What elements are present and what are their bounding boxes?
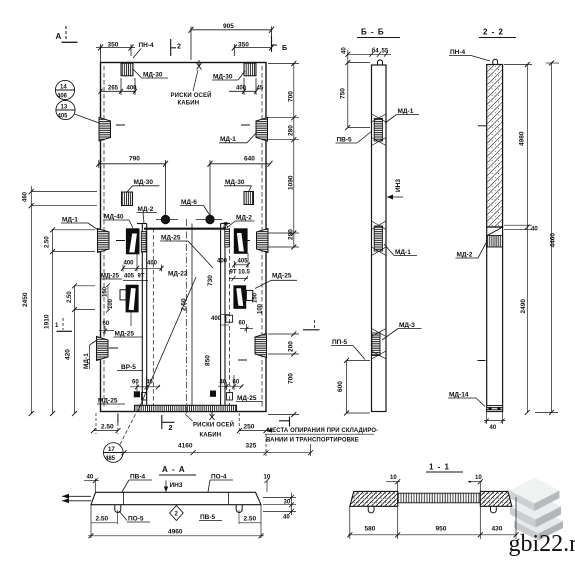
anchor МД-25 upper-right black box: [234, 228, 248, 254]
svg-text:100: 100: [258, 303, 264, 314]
svg-text:60: 60: [239, 321, 246, 327]
label ВР-5: [117, 364, 143, 371]
label МД-25 bottom-left: [97, 398, 125, 405]
svg-text:РИСКИ ОСЕЙ: РИСКИ ОСЕЙ: [193, 421, 234, 429]
text риски осей кабин bottom: [185, 414, 234, 439]
svg-text:2.50: 2.50: [181, 298, 188, 311]
svg-text:405: 405: [124, 274, 135, 280]
svg-text:2: 2: [177, 44, 181, 51]
loop under 1-1 left block: [368, 506, 374, 513]
section 2-2 title: [479, 28, 516, 38]
thickness dims А-А right end: [263, 493, 296, 521]
anchor black square bottom-left: [134, 391, 147, 400]
embed МД-6 circle right: [196, 215, 222, 223]
dimension 200 right: [268, 332, 299, 357]
svg-text:9Т 10.5: 9Т 10.5: [230, 270, 251, 276]
svg-text:400: 400: [124, 261, 135, 267]
svg-text:МД-2: МД-2: [457, 252, 473, 259]
embed МД-2 strip left jamb: [141, 232, 146, 253]
svg-text:Б - Б: Б - Б: [361, 28, 385, 37]
dimension 40 60 bottom-right pier: [218, 375, 244, 390]
svg-text:50: 50: [224, 221, 230, 228]
dimension 2490 2-2 inner lower: [520, 299, 527, 314]
axis dash left middle: [116, 240, 125, 242]
svg-text:40: 40: [531, 227, 538, 233]
embed МД-1 left edge lower: [97, 337, 109, 361]
embed МД-1 right edge lower: [255, 334, 267, 358]
section Б-Б column: [372, 65, 387, 412]
svg-text:МД-2: МД-2: [236, 215, 252, 222]
embed МД-2 block in 2-2: [487, 236, 503, 248]
section 1-1 right block: [480, 491, 512, 506]
section 1-1 title: [426, 463, 463, 473]
marker circle 13/405: [56, 100, 99, 123]
dimension 265 400 top-left inner: [99, 78, 138, 95]
dimension 600 Б-Б: [337, 358, 370, 416]
svg-text:МД-30: МД-30: [225, 179, 245, 186]
svg-text:МД-25: МД-25: [161, 235, 181, 242]
svg-text:А: А: [56, 32, 62, 41]
label МД-25 mid-left: [100, 274, 122, 280]
dimension 750 Б-Б: [340, 88, 371, 130]
svg-text:2: 2: [175, 512, 179, 518]
svg-text:МД-3: МД-3: [399, 322, 415, 329]
diamond mark А-А: [170, 506, 184, 521]
svg-text:150: 150: [253, 292, 259, 303]
dimension 64 55 Б-Б top: [368, 48, 391, 57]
svg-text:700: 700: [288, 373, 295, 384]
svg-text:280: 280: [288, 125, 295, 136]
axis dash right middle: [241, 240, 250, 242]
dimension 405 97 left: [123, 274, 148, 281]
embed МД-30 square mid-left: [122, 192, 133, 206]
section 2-2 column with concrete hatch: [487, 65, 503, 412]
svg-text:750: 750: [340, 88, 347, 99]
svg-text:МД-14: МД-14: [449, 392, 469, 399]
section Б-Б title: [357, 28, 400, 38]
svg-text:250: 250: [244, 424, 255, 431]
embed МД-1 left edge middle: [98, 229, 110, 253]
svg-text:2.50: 2.50: [96, 516, 109, 523]
dimension 280 right lower: [268, 229, 299, 250]
dimension 2.50 А-А right: [239, 505, 261, 538]
dimension 420 left: [65, 349, 78, 416]
svg-text:280: 280: [288, 229, 295, 240]
embed МД-30 tab top-left: [121, 63, 133, 76]
svg-text:2.50: 2.50: [67, 291, 73, 303]
text места опирания: [265, 428, 378, 444]
stub below МД-6 circle right: [209, 220, 211, 224]
section mark 2 bottom: [162, 415, 175, 432]
dimension 700 right bottom: [268, 373, 299, 417]
section mark 1 right: [303, 320, 320, 330]
svg-text:430: 430: [492, 526, 503, 533]
anchor black square bottom-right: [210, 391, 233, 401]
svg-text:45: 45: [257, 86, 264, 92]
svg-text:10: 10: [475, 475, 482, 481]
svg-text:9Т: 9Т: [138, 274, 145, 280]
embed МД-6 circle left: [156, 215, 178, 223]
svg-text:ИН3: ИН3: [395, 179, 402, 192]
svg-text:ПП-5: ПП-5: [332, 339, 348, 346]
svg-text:265: 265: [108, 86, 119, 92]
svg-text:40: 40: [490, 425, 497, 431]
dimension 10 А-А right: [264, 475, 271, 493]
marker circle 14/406: [55, 80, 74, 99]
label МД-25 right with leader: [255, 273, 297, 289]
label МД-1 Б-Б upper: [385, 108, 419, 123]
svg-text:405: 405: [58, 114, 69, 120]
dimension 1910 left: [44, 314, 56, 416]
dimension 400 45 top-right inner: [229, 78, 264, 95]
label МД-25 lower-left with leader: [114, 311, 143, 338]
svg-text:4460: 4460: [550, 233, 557, 248]
dimension 400 right pier small: [211, 315, 229, 326]
svg-text:790: 790: [129, 156, 140, 163]
dimension 4160 bottom: [122, 434, 311, 456]
svg-text:МД-25: МД-25: [115, 331, 135, 338]
dimension 150 100 right of lower anchor: [253, 292, 264, 314]
svg-text:ИН3: ИН3: [170, 482, 183, 489]
section mark А top: [56, 26, 78, 42]
label ПО-5 А-А left: [119, 511, 150, 523]
riska mark top edge: [197, 60, 202, 70]
dimension 325 bottom: [246, 443, 314, 457]
svg-text:640: 640: [244, 156, 255, 163]
dimension 250 left lower: [67, 283, 95, 413]
svg-text:ПО-5: ПО-5: [128, 516, 144, 523]
svg-text:ПН-4: ПН-4: [450, 49, 466, 56]
svg-text:2.50: 2.50: [244, 516, 257, 523]
logo text gbi22.ru: [509, 531, 575, 557]
dimension 40 Б-Б: [342, 47, 371, 128]
opening right jamb hidden line: [229, 228, 231, 405]
label МД-3 Б-Б: [382, 322, 422, 340]
dimension 280 right: [268, 125, 299, 142]
svg-text:40: 40: [220, 380, 227, 386]
small square anchor right pier: [226, 315, 233, 322]
dimension 350 top-left: [96, 42, 135, 63]
embed МД-1 in Б-Б upper: [372, 114, 387, 146]
svg-text:1090: 1090: [288, 175, 295, 190]
embed МД-30 square mid-right: [244, 192, 254, 205]
dimension 40 2-2 bottom: [484, 412, 506, 431]
dimension 4460 2-2 outer: [535, 61, 559, 415]
embed МД-1 left edge upper: [99, 118, 111, 142]
label ПО-4 А-А right: [208, 474, 233, 493]
dimension 2.50 А-А left: [91, 505, 118, 538]
bottom hatched band: [135, 405, 237, 411]
dimension 4980 2-2 inner: [504, 62, 532, 415]
dimension 905 top: [189, 23, 275, 60]
label МД-40 with leader: [103, 214, 133, 229]
svg-text:ПВ-4: ПВ-4: [130, 474, 146, 481]
dimension 97 105 right: [229, 270, 251, 282]
svg-text:460: 460: [23, 191, 29, 202]
label ИН3 vertical with arrow: [387, 179, 403, 200]
label ПВ-5 Б-Б: [336, 131, 373, 144]
label МД-1 vertical left: [83, 340, 97, 369]
label МД-2 right with leader: [228, 215, 255, 228]
dimension 60 right: [239, 321, 254, 333]
embed МД-1 in Б-Б middle: [372, 221, 387, 256]
svg-text:400: 400: [217, 259, 228, 265]
svg-text:13: 13: [61, 105, 68, 111]
svg-text:КАБИН: КАБИН: [178, 101, 200, 107]
svg-text:МД-1: МД-1: [398, 108, 414, 115]
dimension 230 vertical centre: [181, 298, 188, 311]
dimension 150 100 left of lower anchor: [103, 284, 115, 313]
svg-text:ПН-4: ПН-4: [139, 42, 155, 49]
embed МД-14 in 2-2 bottom: [487, 406, 503, 412]
dimension 460 left: [23, 186, 98, 208]
svg-text:325: 325: [246, 443, 257, 450]
svg-text:60: 60: [103, 321, 110, 327]
svg-text:40: 40: [146, 380, 153, 386]
svg-text:А - А: А - А: [162, 465, 186, 474]
dimension 400 405 right: [217, 253, 250, 268]
logo icon slab stack: [510, 478, 564, 541]
svg-text:200: 200: [288, 341, 295, 352]
axis dash 2-2 upper: [478, 125, 486, 127]
svg-text:ПВ-5: ПВ-5: [337, 137, 353, 144]
svg-text:МД-1: МД-1: [220, 136, 236, 143]
opening centreline dashed: [185, 219, 187, 414]
svg-text:gbi22.ru: gbi22.ru: [509, 531, 575, 557]
svg-text:60: 60: [132, 380, 139, 386]
hidden edge dashed right: [261, 66, 263, 408]
svg-text:40: 40: [342, 47, 348, 54]
svg-text:МД-1: МД-1: [395, 249, 411, 256]
section А-А panel bar: [91, 492, 261, 504]
svg-text:2: 2: [169, 425, 173, 432]
lifting loop Б-Б top: [378, 60, 383, 65]
svg-text:400: 400: [147, 261, 158, 267]
embed МД-2 strip right jamb: [225, 229, 230, 247]
dimension 350 top-right: [232, 42, 274, 57]
label МД-30 mid-left with leader: [127, 179, 160, 192]
dimension 640: [208, 156, 273, 216]
svg-text:1910: 1910: [44, 314, 51, 329]
label МД-6 with leader: [180, 199, 210, 216]
svg-text:10: 10: [390, 475, 397, 481]
section 1-1 left block: [350, 491, 398, 506]
svg-text:МД-2: МД-2: [138, 206, 154, 213]
lifting loop 2-2 top: [493, 59, 498, 64]
embed МД-3 in Б-Б lower: [372, 329, 387, 360]
label ПН-4 А-А left: [122, 474, 152, 493]
svg-text:1: 1: [55, 323, 59, 329]
dimension 400 400 below upper-left anchor: [121, 253, 164, 272]
label МД-14 2-2: [448, 392, 485, 407]
anchor МД-25 upper-left black box: [126, 228, 140, 254]
svg-text:850: 850: [205, 355, 212, 366]
svg-text:14: 14: [60, 85, 67, 91]
svg-text:КАБИН: КАБИН: [200, 433, 222, 439]
svg-text:40: 40: [87, 475, 94, 481]
svg-text:МД-25: МД-25: [237, 395, 257, 402]
svg-text:МД-25: МД-25: [98, 398, 118, 405]
svg-text:ПО-4: ПО-4: [211, 474, 227, 481]
opening left jamb double line: [137, 224, 225, 406]
dimension 60 40 bottom-left: [130, 375, 160, 391]
dimension 250 bottom-right: [237, 413, 269, 434]
opening right jamb double line: [221, 224, 230, 406]
hidden edge dashed left: [103, 66, 105, 408]
label МД-1 left with leader: [61, 217, 98, 231]
dimension 790: [96, 156, 168, 216]
svg-text:950: 950: [436, 526, 447, 533]
opening left jamb hidden line: [152, 228, 154, 405]
dimension 40 2-2 middle: [504, 225, 538, 232]
svg-text:600: 600: [337, 381, 344, 392]
svg-text:2.50: 2.50: [45, 236, 51, 248]
svg-text:40: 40: [283, 515, 290, 521]
dimension 730 vertical right pier: [207, 275, 214, 286]
svg-text:2.50: 2.50: [101, 424, 114, 431]
svg-text:МЕСТА ОПИРАНИЯ ПРИ СКЛАДИРО-: МЕСТА ОПИРАНИЯ ПРИ СКЛАДИРО-: [267, 428, 378, 434]
section mark 1 left: [55, 318, 72, 331]
embed МД-1 right edge middle: [257, 229, 269, 253]
dimension 40 А-А left: [84, 475, 99, 493]
label ПН-4 top: [133, 42, 154, 58]
double arrows left А-А: [62, 494, 91, 504]
svg-text:МД-30: МД-30: [213, 74, 233, 81]
loop ПН-5 left under bar: [115, 505, 121, 513]
svg-text:ВАНИИ И ТРАНСПОРТИРОВКЕ: ВАНИИ И ТРАНСПОРТИРОВКЕ: [266, 438, 359, 444]
svg-text:485: 485: [105, 456, 116, 462]
svg-text:ВР-5: ВР-5: [121, 364, 136, 371]
text риски осей кабин top: [171, 70, 212, 107]
svg-text:МД-6: МД-6: [181, 199, 197, 206]
svg-text:РИСКИ ОСЕЙ: РИСКИ ОСЕЙ: [171, 91, 212, 99]
svg-text:2490: 2490: [520, 299, 527, 314]
label МД-2 left with leader: [137, 206, 158, 223]
svg-text:10: 10: [264, 475, 271, 481]
section mark Б top: [272, 36, 288, 52]
loop under 1-1 right block: [491, 506, 497, 513]
label МД-30 top-left with leader: [133, 69, 168, 79]
section mark Б bottom: [279, 417, 290, 427]
label ПП-5 Б-Б: [331, 339, 365, 360]
anchor МД-25 lower-left black box: [120, 285, 139, 313]
svg-text:МД-30: МД-30: [143, 72, 163, 79]
svg-text:2450: 2450: [22, 292, 29, 307]
svg-text:17: 17: [108, 447, 115, 453]
anchor МД-25 lower-right black box: [233, 285, 252, 309]
loop ПН-5 right under bar: [236, 505, 242, 513]
svg-text:30: 30: [284, 500, 291, 506]
riska mark bottom edge: [210, 412, 215, 421]
axis dash right upper: [241, 124, 250, 126]
dimension 580 950 430 bottom 1-1: [347, 497, 518, 539]
dimension 2450 left: [22, 206, 97, 416]
section А-А title: [159, 465, 196, 475]
svg-text:МД-1: МД-1: [62, 217, 78, 224]
panel outline (plan view): [101, 63, 267, 412]
label МД-1 Б-Б middle: [384, 244, 417, 256]
dimension 1090 right: [268, 175, 299, 235]
label МД-2 2-2: [456, 243, 487, 259]
svg-text:2 - 2: 2 - 2: [483, 28, 504, 37]
axis dash right lower: [238, 359, 247, 361]
marker circle 17/485: [104, 413, 137, 462]
svg-text:ПВ-5: ПВ-5: [200, 514, 216, 521]
svg-text:55: 55: [382, 49, 389, 55]
embed МД-1 right edge upper: [256, 118, 268, 142]
svg-text:405: 405: [238, 259, 249, 265]
dimension 850 vertical opening: [205, 355, 212, 366]
svg-text:МД-40: МД-40: [104, 214, 124, 221]
svg-text:1 - 1: 1 - 1: [429, 463, 450, 472]
dimension 10 1-1 left: [386, 475, 400, 491]
svg-text:Б: Б: [282, 45, 287, 52]
axis dash left upper: [116, 124, 125, 126]
dimension 60 left: [99, 321, 114, 334]
dimension 2.50 bottom-left: [91, 413, 121, 434]
label МД-30 top-right with leader: [212, 70, 245, 81]
svg-text:420: 420: [65, 349, 72, 360]
svg-text:100: 100: [108, 298, 114, 309]
dimension 250 left upper: [45, 227, 96, 413]
label ПН-4 2-2: [449, 49, 490, 61]
label МД-30 mid-right with leader: [224, 179, 252, 192]
section 1-1 middle mesh strip: [398, 493, 481, 503]
svg-text:905: 905: [223, 23, 234, 30]
svg-text:400: 400: [211, 316, 222, 322]
stub below МД-6 circle left: [165, 220, 167, 224]
label МД-25 upper with leader: [160, 235, 213, 269]
svg-text:580: 580: [365, 526, 376, 533]
dimension 4960 А-А bottom: [88, 529, 264, 539]
svg-text:150: 150: [103, 286, 109, 297]
svg-text:4980: 4980: [519, 131, 526, 146]
axis dash left lower: [109, 347, 118, 349]
label ИН3 А-А with arrow: [164, 481, 183, 493]
svg-text:4960: 4960: [168, 529, 183, 536]
svg-text:МД-1: МД-1: [83, 353, 90, 369]
label МД-22 with long diagonal leader: [138, 271, 197, 413]
dimension 700 right top: [266, 61, 299, 247]
svg-text:730: 730: [207, 275, 214, 286]
label МД-1 inside panel right: [219, 132, 257, 143]
opening centre thin line: [191, 224, 193, 406]
embed МД-30 tab top-right: [244, 63, 256, 76]
section mark 2 top: [171, 39, 181, 56]
label МД-25 bottom-right: [236, 395, 263, 402]
label ПВ-5 А-А right: [199, 514, 222, 521]
axis dash 2-2 lower: [478, 360, 486, 362]
svg-text:МД-30: МД-30: [134, 179, 154, 186]
svg-text:4160: 4160: [178, 443, 193, 450]
dimension 10 1-1 right: [468, 475, 483, 491]
svg-text:МД-25: МД-25: [272, 273, 292, 280]
dimension 50 at МД-6: [224, 221, 230, 228]
svg-text:406: 406: [57, 94, 68, 100]
svg-text:МД-22: МД-22: [168, 271, 188, 278]
